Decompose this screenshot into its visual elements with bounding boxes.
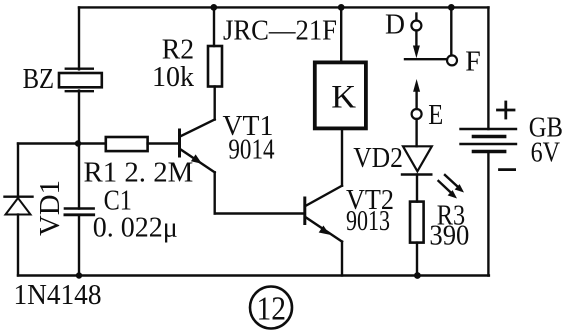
wire K to top xyxy=(340,7,342,62)
wire F to top xyxy=(450,7,452,55)
svg-text:F: F xyxy=(465,47,481,78)
svg-text:VD2: VD2 xyxy=(353,143,403,174)
wire E to VD2 xyxy=(415,119,417,146)
wire VD2 to R3 xyxy=(416,175,418,202)
wire VT1 collector to R2 xyxy=(213,87,215,120)
resistor R1 xyxy=(106,137,148,151)
node bottom R3 xyxy=(414,272,421,279)
node top R2 xyxy=(210,4,217,11)
wire VD1 branch horizontal xyxy=(18,142,78,144)
wire right rail upper xyxy=(487,7,489,129)
svg-text:390: 390 xyxy=(429,221,469,252)
node left junction xyxy=(75,140,81,146)
buzzer BZ xyxy=(59,69,102,92)
wire R3 to bottom xyxy=(416,243,418,276)
contact F terminal circle xyxy=(447,55,457,65)
contact D stub xyxy=(415,14,417,21)
relay coil K xyxy=(315,62,366,128)
wire R1 to VT1 base xyxy=(148,142,179,144)
wire VT1 emitter down xyxy=(213,172,215,213)
resistor R3 xyxy=(410,202,424,243)
contact D arm with arrow xyxy=(413,31,420,59)
wire VT1 emitter to VT2 base xyxy=(215,212,304,214)
contact E arrow xyxy=(413,79,420,109)
svg-text:VD1: VD1 xyxy=(35,180,66,236)
svg-text:1N4148: 1N4148 xyxy=(14,280,102,311)
svg-text:0. 022μ: 0. 022μ xyxy=(93,213,178,244)
svg-text:6V: 6V xyxy=(531,138,560,169)
svg-text:BZ: BZ xyxy=(23,64,54,95)
diode VD1 xyxy=(5,197,33,215)
wire VT2 collector to K xyxy=(341,128,343,185)
contact E terminal circle xyxy=(412,109,422,119)
svg-text:D: D xyxy=(385,10,405,41)
transistor VT2 xyxy=(305,186,342,242)
contact moving bar xyxy=(405,58,447,60)
battery GB xyxy=(461,129,517,152)
svg-text:R2: R2 xyxy=(162,35,194,66)
svg-text:E: E xyxy=(428,100,443,131)
wire R2 to top xyxy=(213,7,215,46)
battery plus sign xyxy=(498,102,515,118)
wire bottom rail xyxy=(18,274,489,276)
svg-text:K: K xyxy=(331,80,356,116)
wire VT2 emitter to bottom xyxy=(341,242,343,276)
svg-text:9013: 9013 xyxy=(346,206,390,237)
wire left rail upper xyxy=(78,7,80,69)
svg-text:10k: 10k xyxy=(152,62,194,93)
wire left rail lower xyxy=(78,215,80,276)
wire VD1 branch lower xyxy=(17,215,19,276)
contact D terminal circle xyxy=(411,21,421,31)
LED VD2 xyxy=(402,146,432,174)
node top F xyxy=(448,4,455,11)
wire R1 left xyxy=(78,142,106,144)
svg-text:12: 12 xyxy=(257,291,287,328)
svg-text:9014: 9014 xyxy=(228,135,274,166)
resistor R2 xyxy=(208,46,222,87)
node bottom left xyxy=(76,272,82,278)
svg-text:JRC—21F: JRC—21F xyxy=(223,16,337,47)
battery minus sign xyxy=(500,168,515,171)
svg-text:R1 2. 2M: R1 2. 2M xyxy=(84,158,194,189)
LED light arrows xyxy=(439,175,465,199)
wire VD1 branch upper xyxy=(17,144,19,197)
transistor VT1 xyxy=(180,120,215,173)
figure number 12 xyxy=(250,287,292,329)
wire left rail middle xyxy=(78,91,80,209)
node top K xyxy=(338,4,345,11)
capacitor C1 xyxy=(65,209,94,215)
wire top rail xyxy=(79,6,489,8)
wire right rail lower xyxy=(487,152,489,276)
